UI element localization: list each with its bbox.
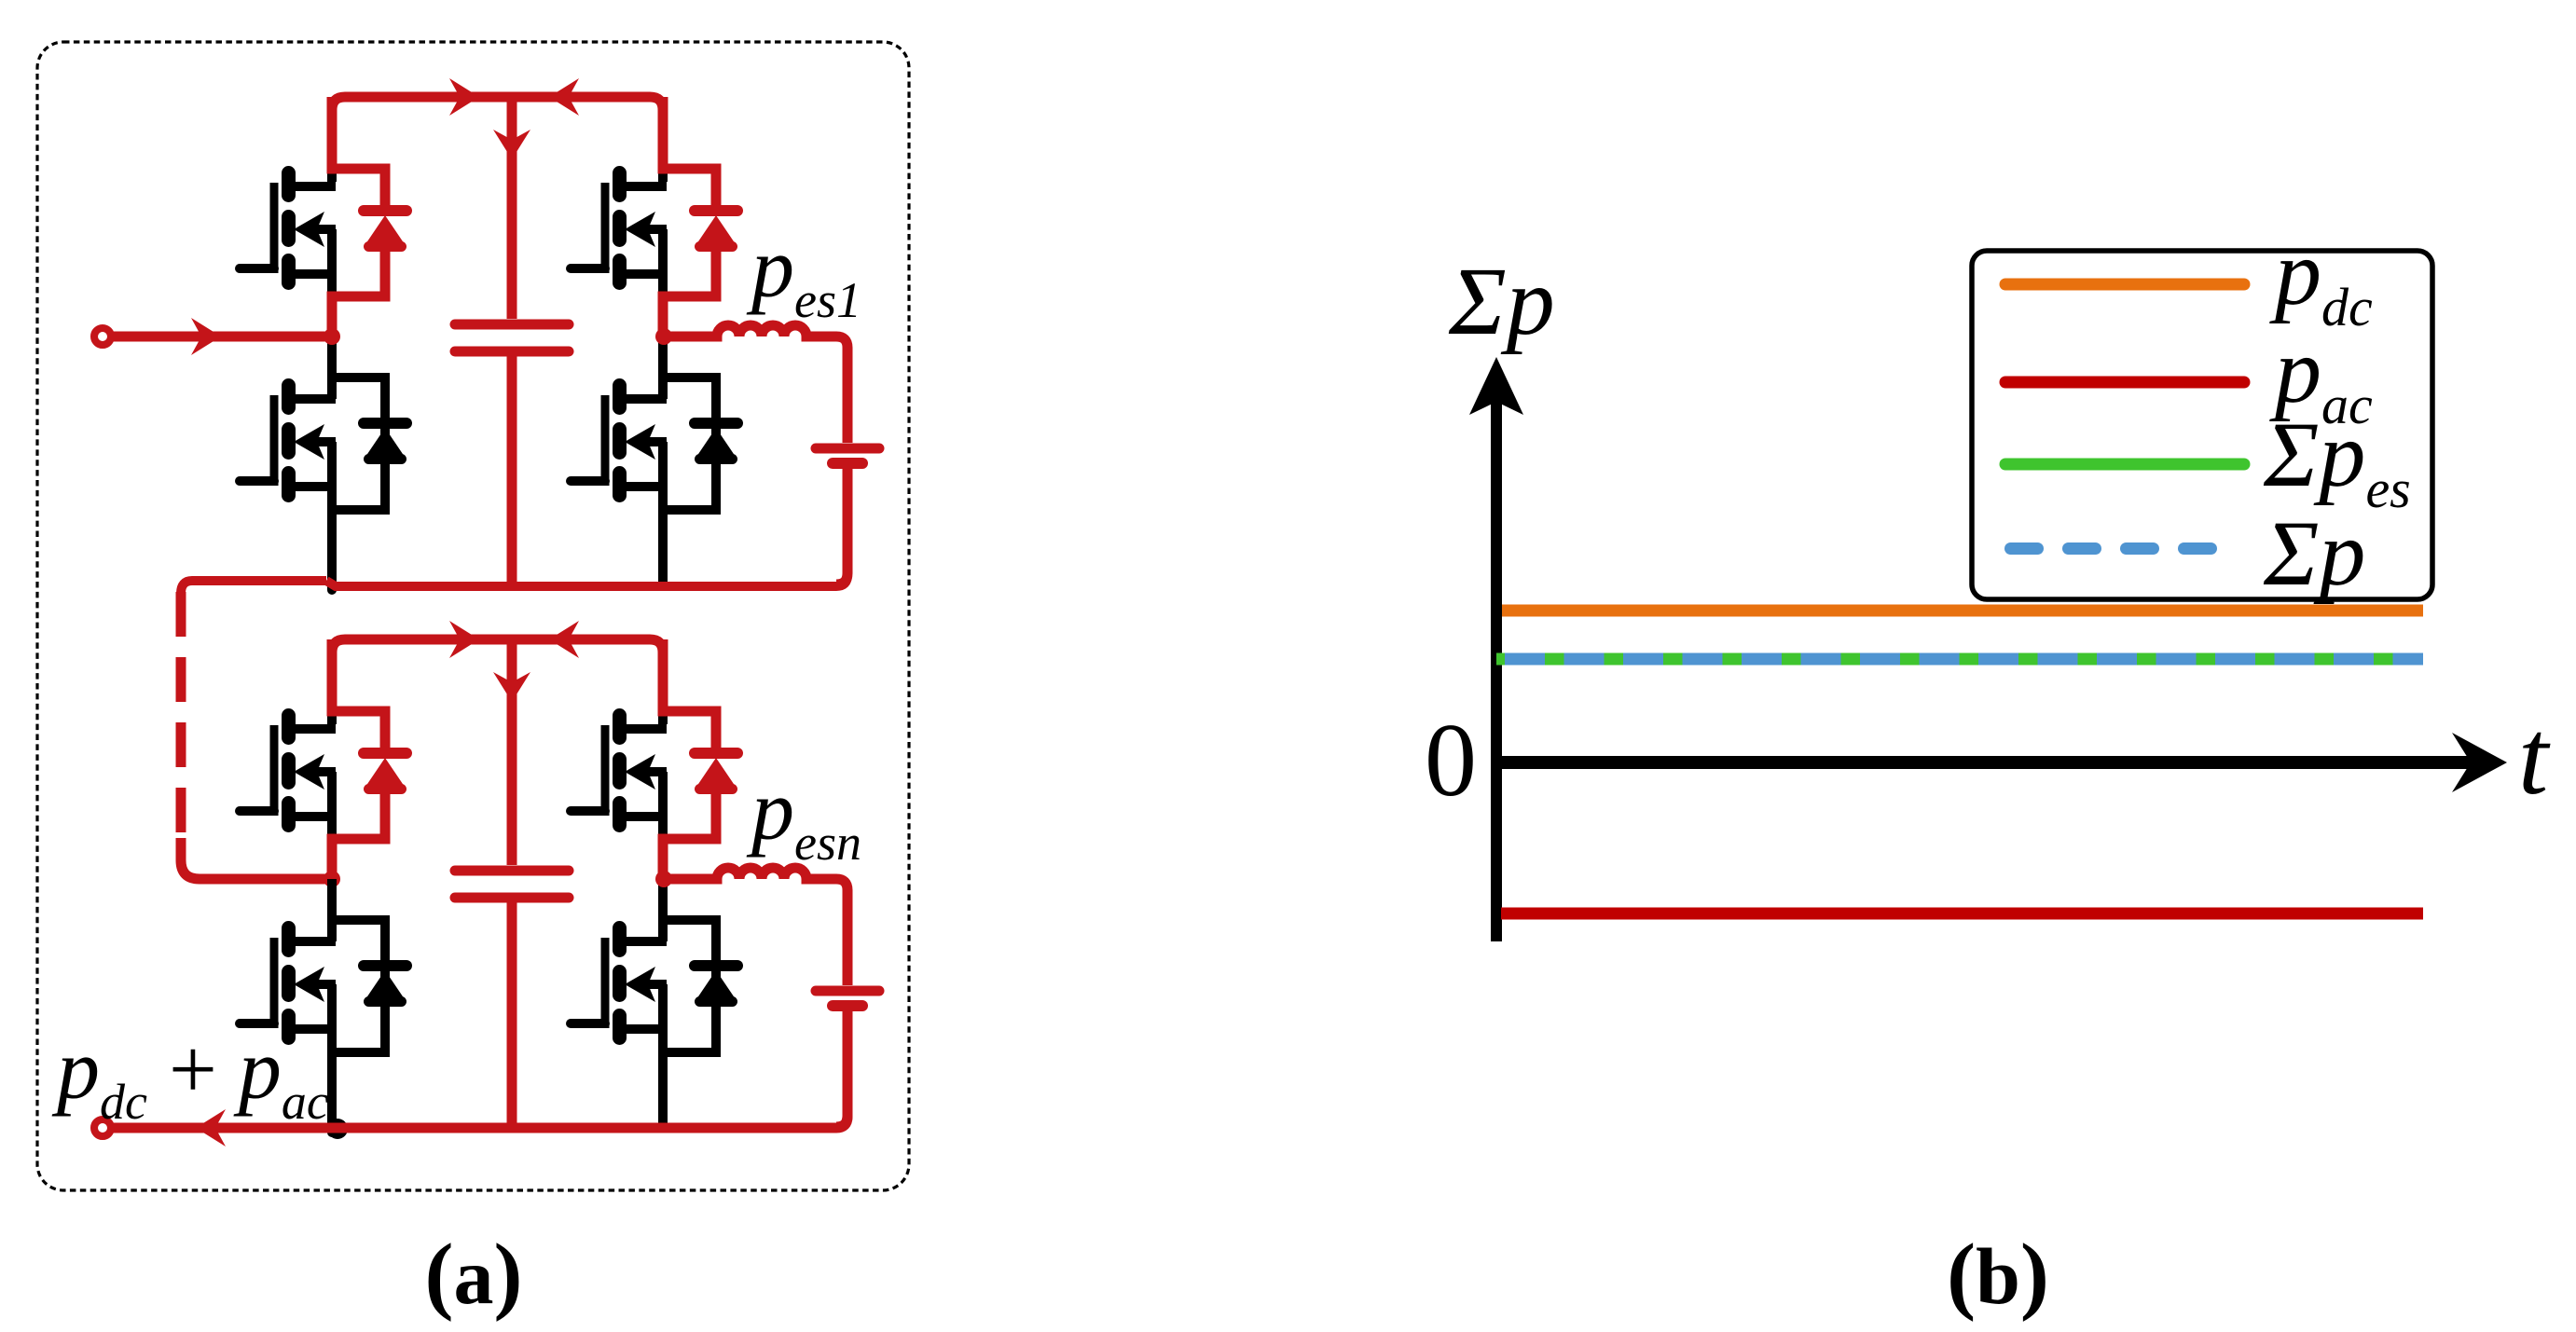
wire input feed [111, 332, 332, 342]
transistor Q13 (cell 1 bottom-left MOSFET) [240, 376, 336, 502]
junction node cell1 right (inductor tap) [655, 328, 672, 345]
junction cell2 left leg on output rail [327, 1119, 348, 1139]
axis x (time) [1491, 756, 2473, 769]
wire cell2 top-right drain up [658, 695, 668, 706]
svg-text:0: 0 [1425, 703, 1477, 818]
axis y arrowhead [1469, 357, 1523, 415]
wire cell2 top-right red return [663, 791, 716, 879]
transistor Q22 (cell 2 top-right MOSFET) [571, 706, 667, 832]
svg-text:(b): (b) [1947, 1227, 2049, 1323]
wire cell2 bottom-left drain [327, 879, 337, 941]
diode D23 (body diode bottom-left) [364, 966, 406, 1007]
wire cell1 bottom-left drain [327, 336, 337, 399]
diode D13 (body diode bottom-left) [364, 423, 406, 464]
battery B1 plate short [833, 458, 862, 469]
wire cell2 top-left red return [332, 791, 385, 879]
capacitor C2 (dc-link) [455, 871, 569, 898]
wire cell2 top-left drain up [327, 695, 337, 706]
diode D11 (body diode top-left, conducting) [364, 211, 406, 252]
junction node cell1 left (input node) [324, 328, 340, 345]
current arrow into capacitor [493, 672, 530, 702]
current arrow on rail (right) [449, 78, 479, 116]
wire cell1 bottom rail [326, 469, 847, 586]
capacitor C1 (dc-link) [455, 324, 569, 351]
junction node cell2 left [324, 871, 340, 887]
wire cell2 bottom-right source to rail [658, 1029, 668, 1127]
wire cell1 top-right source down [658, 274, 668, 336]
wire cell1 bottom-right source to rail [658, 487, 668, 584]
wire cell1 top-right drain up [658, 153, 668, 163]
current arrow input [191, 318, 221, 355]
wire cell2 top-right red drop [663, 639, 716, 749]
diode D12 (body diode top-right, conducting) [695, 211, 737, 252]
current arrow on rail (right) [449, 621, 479, 658]
axis y (sum p) [1491, 396, 1502, 941]
wire cell1 bottom-right diode link top [663, 378, 716, 510]
wire cell2 bottom-left source to rail [327, 1029, 337, 1133]
wire capacitor bottom lead [507, 356, 517, 584]
transistor Q11 (cell 1 top-left MOSFET) [240, 163, 336, 290]
current arrow on rail (left) [549, 621, 579, 658]
curve sum p_es (green) [1496, 653, 2423, 666]
wire cell2 bottom-right drain [658, 879, 668, 941]
battery B2 plate long [816, 986, 879, 996]
curve p_ac (dark red) [1501, 908, 2423, 920]
transistor Q12 (cell 1 top-right MOSFET) [571, 163, 667, 290]
wire cell1 top dc rail [332, 97, 663, 110]
wire dashed link corner [181, 581, 326, 594]
wire capacitor bottom lead [507, 902, 517, 1127]
current arrow on rail (left) [549, 78, 579, 116]
wire cell2 top-right source down [658, 817, 668, 879]
axis x arrowhead [2452, 733, 2507, 792]
wire cell1 bottom-left diode link top [332, 378, 385, 510]
legend sample sum p (dashed blue) [2004, 542, 2217, 555]
inductor L2 [663, 868, 847, 985]
wire capacitor top lead [507, 92, 517, 319]
wire cell2 bottom-right diode link top [663, 920, 716, 1052]
transistor Q21 (cell 2 top-left MOSFET) [240, 706, 336, 832]
curve p_dc (orange) [1502, 605, 2423, 617]
diode D14 (body diode bottom-right) [695, 423, 737, 464]
battery B2 plate short [833, 1000, 862, 1011]
transistor Q24 (cell 2 bottom-right MOSFET) [571, 918, 667, 1045]
wire cell2 top-left red drop [332, 639, 385, 749]
current arrow into capacitor [493, 130, 530, 159]
wire dashed link cell1 to cell2 [176, 592, 186, 832]
wire cell2 top dc rail [332, 639, 663, 652]
wire battery to bottom rail [836, 469, 847, 584]
wire cell1 top-left red drop [332, 97, 385, 207]
legend sample p_ac [2005, 377, 2244, 389]
wire cell1 top-right red return [663, 249, 716, 336]
current arrow output [196, 1109, 226, 1147]
curve sum p (blue dashed over green) [1496, 653, 2423, 666]
enclosure dashed box [37, 42, 909, 1190]
wire cell1 top-left drain up [327, 153, 337, 163]
terminal input (open circle) [94, 328, 111, 345]
wire cell1 bottom-right drain [658, 336, 668, 399]
wire cell2 bottom-left diode link top [332, 920, 385, 1052]
wire output rail [111, 1011, 847, 1128]
svg-text:(a): (a) [425, 1227, 523, 1323]
terminal output (open circle) [94, 1119, 111, 1136]
diode D24 (body diode bottom-right) [695, 966, 737, 1007]
wire cell1 top-left red return [332, 249, 385, 336]
legend sample p_dc [2005, 279, 2244, 291]
junction node cell2 right (inductor tap) [655, 871, 672, 887]
wire link to cell2 node [181, 838, 326, 879]
wire capacitor top lead [507, 635, 517, 865]
wire cell1 top-right red drop [663, 97, 716, 207]
wire battery to bottom rail [836, 1011, 847, 1127]
wire cell2 top-left source down [327, 817, 337, 879]
wire cell1 top-left source down [327, 274, 337, 336]
diode D21 (body diode top-left, conducting) [364, 753, 406, 794]
legend box [1972, 251, 2432, 599]
diode D22 (body diode top-right, conducting) [695, 753, 737, 794]
svg-text:Σp: Σp [2263, 501, 2365, 605]
svg-text:t: t [2518, 698, 2551, 817]
battery B1 plate long [816, 444, 879, 454]
legend sample sum p_es [2005, 459, 2244, 471]
wire cell1 bottom-left source to rail [327, 487, 337, 590]
transistor Q14 (cell 1 bottom-right MOSFET) [571, 376, 667, 502]
transistor Q23 (cell 2 bottom-left MOSFET) [240, 918, 336, 1045]
inductor L1 [663, 325, 847, 443]
svg-text:Σp: Σp [1448, 248, 1555, 355]
